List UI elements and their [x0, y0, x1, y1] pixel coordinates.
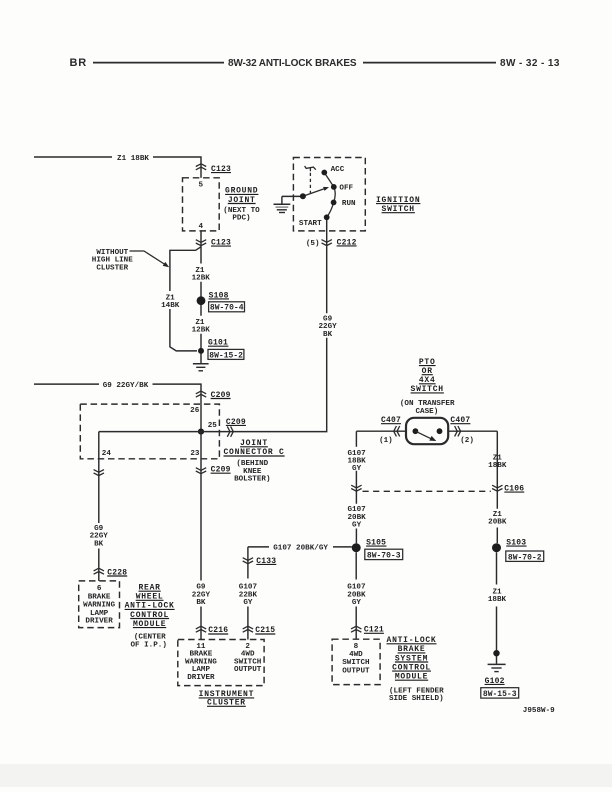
wire pin4 down: [200, 231, 202, 247]
svg-text:18BK: 18BK: [488, 462, 507, 470]
svg-text:BOLSTER): BOLSTER): [234, 476, 270, 484]
wire pin 24 down: [98, 432, 100, 581]
svg-text:12BK: 12BK: [192, 327, 211, 335]
pin 2 4wd switch output: [234, 643, 262, 674]
label G107 18BK GY: [347, 450, 366, 473]
callout arrow: [130, 251, 170, 267]
splice S105: [352, 539, 403, 561]
svg-text:G107 20BK/GY: G107 20BK/GY: [273, 544, 328, 552]
wire pin 25 out: [201, 431, 234, 433]
label J958W-9: [523, 707, 555, 715]
pin 11 brake warning lamp driver: [185, 643, 217, 682]
ground (ignition switch): [274, 196, 291, 212]
connector (pin 24, C209 half): [94, 470, 104, 476]
pin 4: [199, 223, 204, 231]
svg-text:8W-32 ANTI-LOCK BRAKES: 8W-32 ANTI-LOCK BRAKES: [228, 58, 357, 69]
svg-text:8W-70-2: 8W-70-2: [508, 553, 542, 562]
svg-text:WARNING: WARNING: [83, 602, 115, 610]
connector C106 (right half): [492, 485, 524, 494]
connector C407 (2): [450, 416, 474, 445]
svg-text:Z1 18BK: Z1 18BK: [117, 155, 149, 163]
svg-text:20BK: 20BK: [488, 519, 507, 527]
pin 26: [190, 407, 200, 415]
wire G107 20BK/GY branch: [248, 546, 352, 548]
label G107 20BK GY (lower): [347, 584, 366, 607]
wire G9 22GY BK from ignition: [234, 246, 327, 431]
label G107 20BK/GY: [273, 544, 328, 552]
label Z1 12BK (upper): [192, 267, 211, 283]
wire pin26 to bus: [200, 404, 202, 432]
label Z1 18BK (ground leg): [488, 588, 507, 604]
switch PTO body: [406, 418, 448, 444]
svg-text:GY: GY: [352, 522, 362, 530]
label Z1 18BK (right leg): [488, 454, 507, 470]
svg-text:8W-70-3: 8W-70-3: [367, 552, 401, 561]
wire Z1 12BK main: [200, 247, 202, 364]
svg-text:8W-70-4: 8W-70-4: [210, 304, 244, 313]
wire S103 to ground: [496, 552, 498, 664]
connector C121: [351, 626, 384, 635]
label G107 22BK GY: [239, 584, 258, 607]
connector C228: [94, 568, 128, 577]
pin 23: [190, 450, 200, 458]
node bus junction: [198, 429, 204, 435]
svg-text:LAMP: LAMP: [192, 666, 211, 674]
connector C212: [306, 238, 357, 248]
svg-text:BRAKE: BRAKE: [190, 651, 213, 659]
connector C216: [196, 626, 228, 635]
label ANTI-LOCK BRAKE SYSTEM CONTROL MODULE: [387, 636, 445, 703]
svg-text:BK: BK: [196, 599, 206, 607]
svg-text:(CENTER: (CENTER: [134, 634, 166, 642]
svg-text:OUTPUT: OUTPUT: [234, 666, 262, 674]
svg-text:4WD: 4WD: [241, 651, 255, 659]
wire C133 to cluster: [247, 607, 249, 640]
wire G9 22GY/BK feed: [34, 384, 201, 390]
wire branch without-high-line: [170, 247, 201, 351]
key symbol: [305, 166, 316, 171]
svg-text:SWITCH: SWITCH: [342, 659, 370, 667]
connector C209 (pin 25 half): [226, 418, 246, 437]
svg-text:4: 4: [199, 223, 204, 231]
svg-text:CASE): CASE): [416, 408, 439, 416]
label IGNITION SWITCH: [376, 196, 420, 214]
splice S103: [492, 539, 544, 563]
contact RUN: [331, 200, 356, 208]
contact path ACC-OFF-RUN-START: [324, 173, 335, 218]
label Z1 12BK (lower): [192, 319, 211, 335]
node ground junction: [493, 650, 499, 656]
connector C123 (top half): [196, 164, 231, 174]
svg-text:GY: GY: [243, 599, 253, 607]
svg-text:DRIVER: DRIVER: [187, 674, 215, 682]
svg-text:CLUSTER: CLUSTER: [96, 264, 128, 272]
switch contacts and blade: [413, 428, 443, 441]
svg-text:BK: BK: [323, 331, 333, 339]
svg-text:Z1: Z1: [195, 267, 205, 275]
header rule right: [363, 62, 496, 64]
svg-text:BR: BR: [70, 57, 88, 69]
pin 24: [102, 450, 112, 458]
wire into C123: [200, 164, 202, 178]
svg-text:8: 8: [354, 643, 359, 651]
svg-text:OFF: OFF: [339, 184, 353, 192]
contact START: [299, 214, 330, 227]
pin 8 4wd switch output: [342, 643, 370, 676]
svg-text:6: 6: [97, 585, 102, 593]
label G9 22GY BK (pin 24 leg): [90, 525, 109, 549]
wiper arm: [300, 187, 329, 199]
svg-text:11: 11: [196, 643, 206, 651]
anti-lock brake system control module (dashed box): [332, 639, 380, 684]
label G107 20BK GY (left): [347, 506, 366, 529]
wire Z1 18BK feed: [34, 157, 201, 164]
svg-text:Z1: Z1: [492, 588, 502, 596]
svg-text:14BK: 14BK: [161, 302, 180, 310]
ground joint (dashed box): [183, 178, 220, 231]
svg-text:ACC: ACC: [331, 166, 345, 174]
label GROUND JOINT: [223, 187, 260, 223]
label INSTRUMENT CLUSTER: [199, 690, 255, 707]
joint connector C (dashed box): [80, 404, 219, 459]
svg-text:26: 26: [190, 407, 200, 415]
label G9 22GY/BK: [103, 382, 149, 390]
svg-text:G9: G9: [323, 315, 333, 323]
svg-text:RUN: RUN: [342, 200, 356, 208]
svg-text:22GY: 22GY: [90, 533, 109, 541]
svg-text:4WD: 4WD: [349, 651, 363, 659]
ignition switch (dashed box): [293, 158, 365, 231]
pin 25: [208, 422, 218, 430]
label PTO OR 4X4 SWITCH: [400, 358, 455, 416]
connector C133: [243, 547, 277, 579]
connector C209 (pin 23 half): [196, 466, 231, 475]
splice S108: [197, 291, 245, 312]
label G9 22GY BK (pin 23 leg): [192, 584, 211, 607]
svg-text:G9 22GY/BK: G9 22GY/BK: [103, 382, 149, 390]
label REAR WHEEL ANTI-LOCK CONTROL MODULE: [125, 584, 175, 650]
pin 5: [199, 182, 204, 190]
wire pin 23 down: [200, 432, 202, 640]
label G9 22GY BK (ignition feed): [318, 315, 337, 339]
svg-text:DRIVER: DRIVER: [85, 618, 113, 626]
ground G101: [193, 339, 244, 371]
instrument cluster (dashed box): [178, 640, 264, 686]
svg-text:BK: BK: [94, 541, 104, 549]
svg-text:OF I.P.): OF I.P.): [130, 641, 166, 649]
contact OFF: [331, 184, 354, 192]
label Z1 20BK: [488, 511, 507, 527]
wire C407 left: [356, 430, 406, 432]
svg-text:PDC): PDC): [232, 215, 250, 223]
rear wheel anti-lock control module (dashed box): [79, 581, 120, 628]
header rule left: [93, 62, 224, 64]
svg-text:Z1: Z1: [195, 319, 205, 327]
wire right leg Z1: [496, 431, 498, 543]
svg-text:SIDE SHIELD): SIDE SHIELD): [389, 695, 444, 703]
svg-text:OUTPUT: OUTPUT: [342, 667, 370, 675]
svg-text:2: 2: [245, 643, 250, 651]
svg-text:8W - 32 - 13: 8W - 32 - 13: [500, 58, 560, 69]
svg-text:(1): (1): [379, 437, 393, 445]
connector C106 (dashed tie): [363, 490, 491, 492]
connector C123 (bottom half): [196, 238, 231, 247]
svg-text:J958W-9: J958W-9: [523, 707, 555, 715]
svg-text:(5): (5): [306, 240, 320, 248]
svg-text:8W-15-2: 8W-15-2: [209, 351, 243, 360]
svg-text:23: 23: [190, 450, 200, 458]
svg-text:KNEE: KNEE: [243, 468, 262, 476]
svg-text:18BK: 18BK: [488, 596, 507, 604]
connector C215: [243, 626, 276, 635]
scan shading band bottom: [0, 764, 612, 787]
svg-text:START: START: [299, 220, 322, 228]
svg-text:5: 5: [199, 182, 204, 190]
wire ground to wiper: [282, 195, 300, 197]
svg-text:BRAKE: BRAKE: [88, 593, 111, 601]
svg-text:25: 25: [208, 422, 218, 430]
label JOINT CONNECTOR C: [223, 439, 284, 484]
wire S105 to C121: [355, 552, 357, 639]
connector C407 (1): [379, 416, 401, 445]
wire left leg G107: [355, 431, 357, 543]
contact ACC: [321, 166, 344, 176]
key linkage (dashed): [309, 173, 311, 193]
wire C407 right: [448, 430, 497, 432]
svg-text:24: 24: [102, 450, 112, 458]
svg-text:G9: G9: [94, 525, 104, 533]
connector C209 (pin 26 half): [196, 391, 231, 405]
svg-text:(ON TRANSFER: (ON TRANSFER: [400, 400, 455, 408]
label WITHOUT HIGH LINE CLUSTER: [92, 249, 133, 272]
svg-text:12BK: 12BK: [192, 275, 211, 283]
connector C106 (left half): [351, 485, 361, 491]
label Z1 18BK: [117, 155, 149, 163]
svg-text:GY: GY: [352, 465, 362, 473]
wire START down: [326, 220, 328, 246]
label Z1 14BK: [161, 294, 180, 310]
ground G102: [481, 664, 519, 699]
svg-text:(2): (2): [460, 437, 474, 445]
svg-text:8W-15-3: 8W-15-3: [483, 690, 517, 699]
svg-text:GY: GY: [352, 599, 362, 607]
wire bus to pin 24 and pin 25: [99, 431, 201, 433]
pin 6 brake warning lamp driver: [83, 585, 115, 626]
